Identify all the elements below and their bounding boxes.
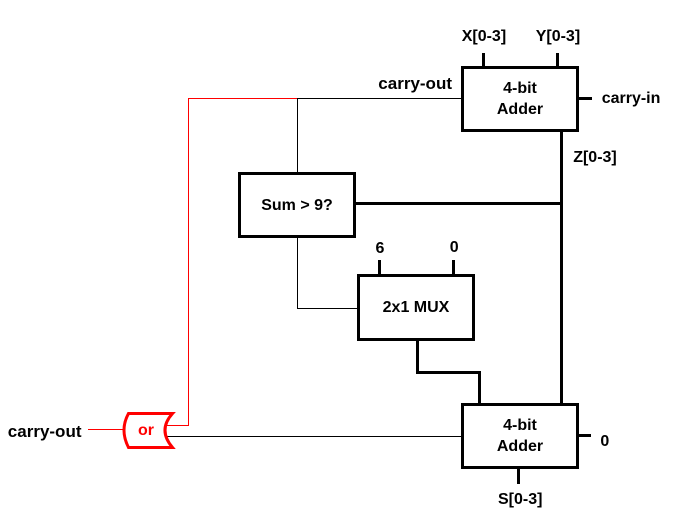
wire: red horizontal top segment bbox=[188, 98, 297, 99]
wire: Y[0-3] input stub bbox=[556, 53, 559, 67]
label Z[0-3] bbox=[573, 150, 617, 166]
wire: carry-in stub bbox=[578, 97, 592, 100]
wire: MUX input stub 6 bbox=[378, 260, 381, 275]
wire: S[0-3] output stub bbox=[517, 468, 520, 484]
multiplexer 2x1 MUX bbox=[357, 274, 475, 341]
wire: thin vertical junction to Sum>9 box top bbox=[297, 98, 298, 173]
wire: X[0-3] input stub bbox=[482, 53, 485, 67]
wire: red horizontal from or gate output to red vertical bbox=[161, 425, 189, 426]
wire: carry line black horizontal (top adder left to junction) bbox=[297, 98, 461, 99]
label Y[0-3] bbox=[536, 29, 580, 45]
4-bit adder U1 (top) bbox=[461, 66, 579, 132]
wire: black horizontal from or gate to adder2 left bbox=[163, 436, 461, 437]
wire: MUX output vertical 1 bbox=[416, 340, 419, 373]
or gate (red, output facing left) bbox=[110, 400, 190, 460]
label carry-out (top) bbox=[378, 76, 452, 92]
comparator Sum > 9? bbox=[238, 172, 356, 238]
wire: thin horizontal into 2x1 MUX left bbox=[297, 308, 358, 309]
wire: thick horizontal Sum>9 output to Z line bbox=[355, 202, 562, 205]
wire: red input from carry-out label into or gate bbox=[88, 429, 123, 430]
4-bit adder U2 (bottom) bbox=[461, 403, 579, 469]
or gate label bbox=[138, 423, 154, 439]
wire: adder2 right 0 stub bbox=[578, 434, 591, 437]
wire: MUX output horizontal bbox=[416, 371, 481, 374]
label carry-out (bottom) bbox=[8, 424, 82, 440]
label 0 (adder2 carry-in) bbox=[600, 434, 609, 450]
wire: thick Z[0-3] vertical line (adder1 bottom to adder2 top) bbox=[560, 131, 563, 404]
wire: thin vertical from Sum>9 bottom bbox=[297, 238, 298, 309]
wire: MUX input stub 0 bbox=[452, 260, 455, 275]
label S[0-3] bbox=[498, 492, 542, 508]
label carry-in bbox=[602, 91, 661, 107]
wire: MUX output vertical 2 into adder2 bbox=[478, 371, 481, 404]
label 0 (MUX input) bbox=[450, 240, 459, 256]
label 6 (MUX input) bbox=[376, 241, 385, 257]
wire: red vertical from top junction down to or gate bbox=[188, 98, 189, 426]
label X[0-3] bbox=[462, 29, 506, 45]
